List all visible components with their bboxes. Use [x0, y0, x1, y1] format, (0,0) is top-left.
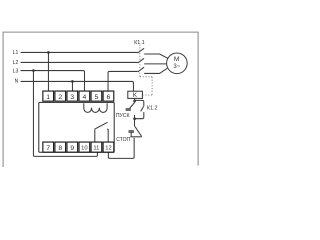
svg-text:L3: L3	[13, 69, 19, 75]
svg-text:3~: 3~	[173, 64, 180, 70]
svg-text:L2: L2	[13, 60, 19, 66]
svg-text:9: 9	[70, 145, 74, 152]
svg-text:8: 8	[58, 145, 62, 152]
svg-text:4: 4	[82, 94, 86, 101]
svg-text:К1.1: К1.1	[134, 40, 145, 46]
svg-text:ПУСК: ПУСК	[116, 113, 130, 119]
svg-text:11: 11	[93, 146, 99, 152]
svg-text:СТОП: СТОП	[116, 137, 130, 143]
svg-text:M: M	[174, 56, 180, 63]
svg-text:6: 6	[107, 94, 111, 101]
svg-text:L1: L1	[13, 50, 19, 56]
svg-text:10: 10	[81, 146, 87, 152]
svg-text:12: 12	[105, 146, 111, 152]
svg-text:К1.2: К1.2	[147, 106, 158, 112]
svg-text:7: 7	[46, 145, 50, 152]
svg-text:1: 1	[46, 94, 50, 101]
svg-text:2: 2	[58, 94, 62, 101]
svg-text:3: 3	[70, 94, 74, 101]
svg-text:5: 5	[95, 94, 99, 101]
svg-text:N: N	[15, 79, 19, 85]
